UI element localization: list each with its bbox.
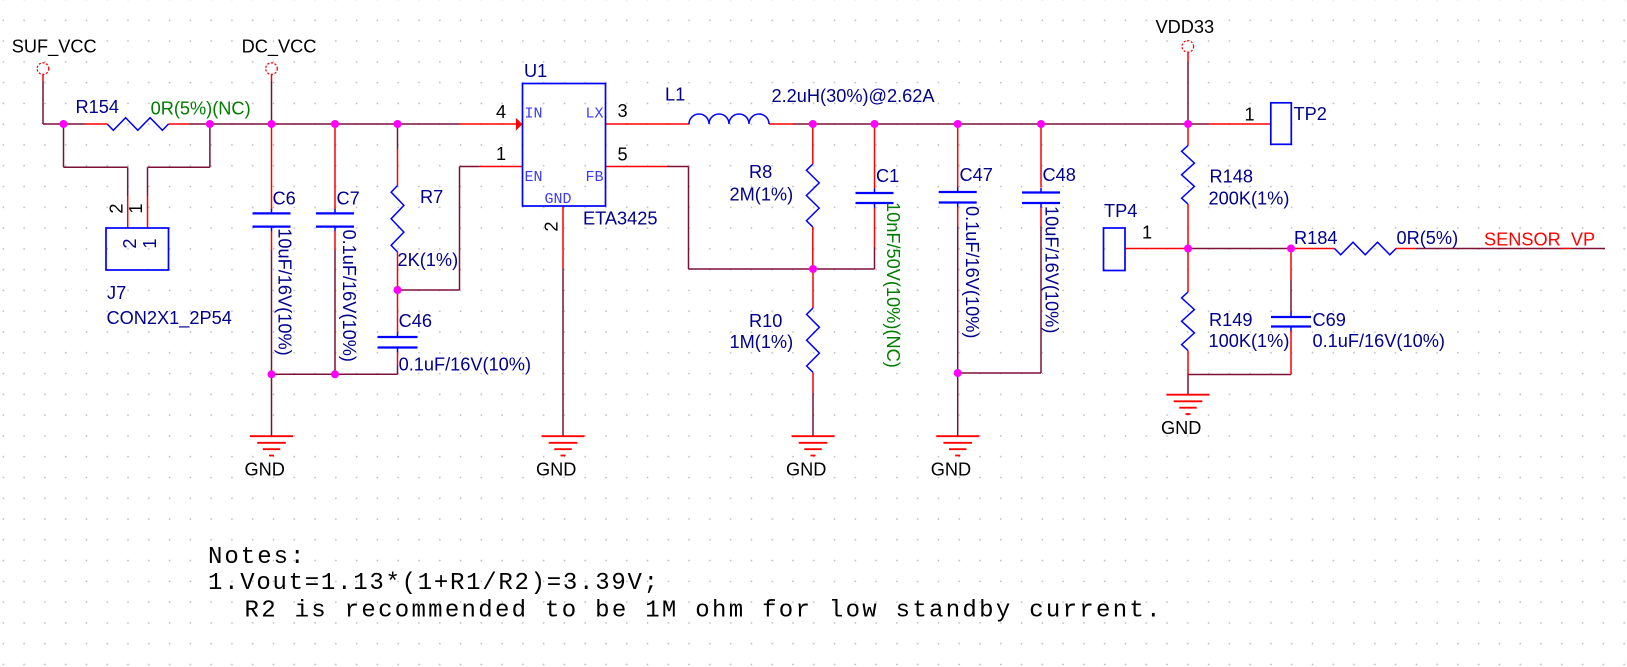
- svg-text:LX: LX: [585, 106, 603, 123]
- svg-text:4: 4: [496, 102, 506, 122]
- svg-text:TP2: TP2: [1294, 104, 1327, 124]
- svg-text:2.2uH(30%)@2.62A: 2.2uH(30%)@2.62A: [772, 86, 936, 106]
- svg-text:R184: R184: [1294, 228, 1337, 248]
- svg-text:R8: R8: [749, 162, 772, 182]
- svg-text:3: 3: [618, 101, 628, 121]
- svg-text:DC_VCC: DC_VCC: [242, 37, 317, 58]
- svg-text:2M(1%): 2M(1%): [730, 185, 794, 205]
- svg-text:GND: GND: [245, 460, 285, 480]
- svg-text:0R(5%)(NC): 0R(5%)(NC): [151, 99, 251, 119]
- svg-text:IN: IN: [525, 106, 543, 123]
- svg-text:10uF/16V(10%): 10uF/16V(10%): [275, 228, 295, 355]
- svg-text:R148: R148: [1210, 167, 1253, 187]
- svg-text:GND: GND: [1161, 418, 1201, 438]
- svg-text:1M(1%): 1M(1%): [730, 332, 794, 352]
- svg-text:FB: FB: [585, 169, 603, 186]
- svg-text:C1: C1: [876, 166, 899, 186]
- svg-text:EN: EN: [525, 169, 543, 186]
- svg-text:GND: GND: [536, 460, 576, 480]
- svg-text:200K(1%): 200K(1%): [1209, 189, 1290, 209]
- svg-text:R149: R149: [1209, 310, 1252, 330]
- svg-text:1: 1: [140, 238, 160, 248]
- svg-text:R154: R154: [76, 97, 119, 117]
- svg-text:0R(5%): 0R(5%): [1397, 228, 1459, 248]
- svg-text:5: 5: [618, 145, 628, 165]
- svg-text:0.1uF/16V(10%): 0.1uF/16V(10%): [962, 206, 982, 338]
- svg-text:VDD33: VDD33: [1156, 17, 1215, 37]
- svg-text:0.1uF/16V(10%): 0.1uF/16V(10%): [399, 355, 531, 375]
- svg-text:1.Vout=1.13*(1+R1/R2)=3.39V;: 1.Vout=1.13*(1+R1/R2)=3.39V;: [208, 570, 658, 597]
- svg-text:C48: C48: [1043, 165, 1076, 185]
- svg-text:ETA3425: ETA3425: [583, 209, 657, 229]
- svg-text:2K(1%): 2K(1%): [398, 250, 459, 270]
- svg-text:2: 2: [106, 203, 126, 213]
- svg-text:1: 1: [126, 203, 146, 213]
- svg-text:CON2X1_2P54: CON2X1_2P54: [107, 308, 232, 329]
- svg-text:R10: R10: [749, 311, 782, 331]
- svg-text:GND: GND: [544, 191, 571, 208]
- svg-text:C6: C6: [273, 189, 296, 209]
- svg-text:U1: U1: [524, 61, 547, 81]
- svg-text:2: 2: [542, 221, 562, 231]
- svg-text:GND: GND: [786, 460, 826, 480]
- svg-text:1: 1: [1245, 105, 1255, 125]
- svg-text:2: 2: [120, 238, 140, 248]
- svg-text:10uF/16V(10%): 10uF/16V(10%): [1042, 206, 1062, 333]
- svg-text:SENSOR_VP: SENSOR_VP: [1484, 230, 1595, 251]
- svg-text:0.1uF/16V(10%): 0.1uF/16V(10%): [1313, 331, 1445, 351]
- svg-text:SUF_VCC: SUF_VCC: [12, 37, 97, 58]
- svg-text:L1: L1: [665, 85, 685, 105]
- svg-text:C7: C7: [337, 189, 360, 209]
- svg-text:C46: C46: [399, 311, 432, 331]
- svg-text:C47: C47: [960, 165, 993, 185]
- svg-text:R2 is recommended to be 1M ohm: R2 is recommended to be 1M ohm for low s…: [245, 598, 1161, 625]
- svg-text:TP4: TP4: [1104, 201, 1137, 221]
- svg-text:100K(1%): 100K(1%): [1209, 331, 1290, 351]
- svg-text:0.1uF/16V(10%): 0.1uF/16V(10%): [339, 230, 359, 362]
- svg-text:GND: GND: [931, 460, 971, 480]
- svg-text:R7: R7: [420, 187, 443, 207]
- svg-text:1: 1: [496, 144, 506, 164]
- svg-text:J7: J7: [107, 283, 126, 303]
- svg-text:C69: C69: [1313, 310, 1346, 330]
- svg-text:1: 1: [1142, 223, 1152, 243]
- svg-text:10nF/50V(10%)(NC): 10nF/50V(10%)(NC): [883, 202, 903, 368]
